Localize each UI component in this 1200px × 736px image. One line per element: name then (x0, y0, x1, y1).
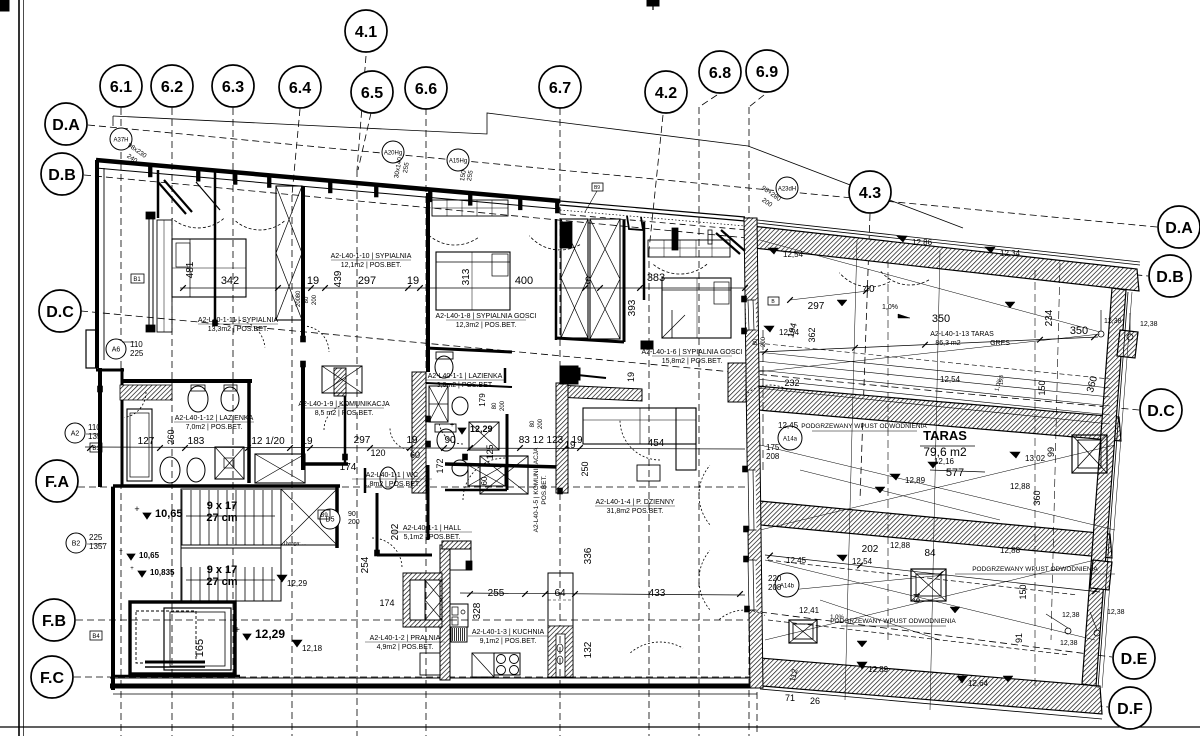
svg-text:132: 132 (583, 641, 594, 658)
svg-text:127: 127 (138, 436, 155, 447)
svg-text:9,1m2 | POS.BET.: 9,1m2 | POS.BET. (480, 638, 537, 645)
svg-text:A2-L40-1-1 | WC: A2-L40-1-1 | WC (366, 472, 418, 479)
svg-text:12,88: 12,88 (890, 541, 911, 550)
svg-text:12,29: 12,29 (470, 424, 493, 434)
svg-text:A2-L40-1-1 | HALL: A2-L40-1-1 | HALL (403, 525, 461, 532)
svg-text:383: 383 (647, 272, 665, 284)
svg-text:202: 202 (390, 523, 401, 540)
svg-text:12 1/20: 12 1/20 (251, 436, 285, 447)
svg-text:362: 362 (807, 327, 817, 342)
svg-text:99: 99 (1046, 447, 1056, 457)
svg-text:64: 64 (912, 593, 922, 603)
svg-text:12,86: 12,86 (912, 238, 933, 247)
svg-text:10,65: 10,65 (155, 508, 183, 520)
svg-text:400: 400 (515, 275, 533, 287)
svg-text:PODGRZEWANY WPUST ODWODNIENIA: PODGRZEWANY WPUST ODWODNIENIA (801, 423, 927, 430)
svg-text:120: 120 (370, 448, 385, 458)
svg-text:9 x 17: 9 x 17 (207, 564, 238, 576)
svg-text:POS.BET.: POS.BET. (541, 475, 548, 504)
svg-text:A2-L40-1-13 TARAS: A2-L40-1-13 TARAS (930, 331, 994, 338)
svg-text:9: 9 (585, 275, 591, 287)
svg-text:A2-L40-1-6 | SYPIALNIA GOSCI: A2-L40-1-6 | SYPIALNIA GOSCI (641, 349, 742, 356)
svg-text:4.1: 4.1 (355, 24, 377, 41)
svg-text:B9: B9 (320, 513, 328, 519)
svg-text:125: 125 (485, 444, 495, 459)
svg-text:179: 179 (478, 393, 487, 407)
svg-text:19: 19 (307, 275, 319, 287)
svg-text:12,18: 12,18 (302, 644, 323, 653)
svg-text:4.3: 4.3 (859, 185, 881, 202)
svg-text:12,64: 12,64 (968, 679, 989, 688)
svg-text:A15Hg: A15Hg (449, 159, 467, 165)
svg-text:110: 110 (88, 423, 101, 432)
svg-text:6.4: 6.4 (289, 80, 311, 97)
svg-text:12,16: 12,16 (934, 457, 955, 466)
svg-text:B1: B1 (92, 446, 100, 452)
svg-text:71: 71 (785, 693, 795, 703)
svg-text:150: 150 (1037, 380, 1047, 395)
svg-text:12,89: 12,89 (868, 665, 889, 674)
svg-text:D.C: D.C (1147, 403, 1175, 420)
svg-text:8,5 m2 | POS.BET.: 8,5 m2 | POS.BET. (315, 410, 374, 417)
svg-text:12,34: 12,34 (1000, 249, 1021, 258)
svg-text:+: + (450, 422, 454, 429)
svg-text:80: 80 (492, 402, 498, 409)
svg-text:+: + (130, 566, 134, 572)
svg-text:PODGRZEWANY WPUST ODWODNIENIA: PODGRZEWANY WPUST ODWODNIENIA (972, 566, 1098, 573)
svg-text:B1: B1 (133, 277, 141, 283)
svg-text:12,88: 12,88 (1010, 482, 1031, 491)
svg-text:350: 350 (1070, 325, 1088, 337)
svg-text:A2-L40-1-4 | P. DZIENNY: A2-L40-1-4 | P. DZIENNY (595, 499, 674, 506)
svg-text:Uwaga: ...: Uwaga: ... (284, 541, 307, 547)
svg-text:A2-L40-1-1 | LAZIENKA: A2-L40-1-1 | LAZIENKA (428, 373, 503, 380)
svg-text:7,0m2 | POS.BET.: 7,0m2 | POS.BET. (186, 424, 243, 431)
svg-text:A14b: A14b (780, 584, 795, 590)
svg-text:202: 202 (862, 544, 879, 555)
svg-text:433: 433 (649, 588, 666, 599)
svg-text:A2-L40-1-11 | SYPIALNIA: A2-L40-1-11 | SYPIALNIA (198, 317, 279, 324)
svg-text:12,45: 12,45 (778, 421, 799, 430)
svg-text:200: 200 (761, 336, 767, 347)
svg-text:110: 110 (130, 340, 143, 349)
svg-text:60: 60 (480, 476, 489, 485)
svg-text:5,1m2 | POS.BET.: 5,1m2 | POS.BET. (404, 534, 461, 541)
svg-text:A2: A2 (71, 431, 80, 438)
svg-text:TARAS: TARAS (923, 428, 967, 443)
svg-text:27 cm: 27 cm (206, 512, 237, 524)
svg-text:D.A: D.A (52, 117, 80, 134)
svg-text:+: + (234, 625, 240, 636)
svg-text:6.5: 6.5 (361, 85, 383, 102)
svg-text:336: 336 (583, 547, 594, 564)
svg-text:297: 297 (354, 435, 371, 446)
svg-text:90: 90 (444, 435, 456, 446)
svg-text:200: 200 (312, 294, 318, 305)
svg-text:454: 454 (648, 438, 665, 449)
svg-text:B9: B9 (594, 185, 600, 191)
svg-text:15,8m2 | POS.BET.: 15,8m2 | POS.BET. (662, 358, 723, 365)
svg-text:80: 80 (296, 290, 302, 297)
svg-text:313: 313 (461, 268, 472, 285)
svg-text:12,54: 12,54 (783, 250, 804, 259)
svg-text:9 x 17: 9 x 17 (207, 500, 238, 512)
svg-text:360: 360 (1032, 490, 1042, 505)
svg-text:183: 183 (188, 436, 205, 447)
svg-text:150: 150 (1018, 584, 1028, 599)
svg-text:83 12 123: 83 12 123 (519, 435, 564, 446)
svg-text:393: 393 (627, 299, 638, 316)
svg-text:4.2: 4.2 (655, 85, 677, 102)
svg-text:1,0%: 1,0% (830, 615, 844, 621)
svg-text:297: 297 (808, 301, 825, 312)
svg-text:+: + (134, 504, 139, 514)
svg-text:F.C: F.C (40, 670, 64, 687)
svg-text:12,29: 12,29 (287, 579, 308, 588)
svg-text:6.3: 6.3 (222, 79, 244, 96)
svg-text:12,41: 12,41 (799, 606, 820, 615)
svg-text:A2-L40-1-10 | SYPIALNIA: A2-L40-1-10 | SYPIALNIA (331, 253, 412, 260)
svg-text:200: 200 (348, 519, 360, 526)
svg-text:B2: B2 (72, 541, 81, 548)
svg-text:1,0%: 1,0% (882, 304, 898, 311)
svg-text:208: 208 (766, 452, 780, 461)
svg-text:B4: B4 (92, 634, 100, 640)
svg-text:6.7: 6.7 (549, 80, 571, 97)
svg-text:A14a: A14a (783, 437, 798, 443)
svg-text:A2-L40-1-5 | KOMUNIKACJA: A2-L40-1-5 | KOMUNIKACJA (533, 447, 540, 532)
svg-text:F.B: F.B (42, 613, 66, 630)
svg-text:19: 19 (564, 440, 576, 451)
svg-text:90: 90 (348, 511, 356, 518)
svg-text:6.8: 6.8 (709, 65, 731, 82)
svg-text:12,38: 12,38 (1104, 318, 1122, 325)
svg-text:200: 200 (500, 400, 506, 411)
svg-text:80: 80 (753, 338, 759, 345)
svg-text:12,29: 12,29 (255, 627, 285, 641)
svg-text:175: 175 (766, 443, 780, 452)
svg-text:12,38: 12,38 (1140, 321, 1158, 328)
svg-text:D.C: D.C (46, 304, 74, 321)
svg-text:174: 174 (340, 462, 357, 473)
svg-text:6.2: 6.2 (161, 79, 183, 96)
svg-text:6.6: 6.6 (415, 81, 437, 98)
svg-text:232: 232 (784, 378, 799, 388)
svg-text:31,8m2 POS.BET.: 31,8m2 POS.BET. (607, 508, 664, 515)
svg-text:19: 19 (406, 435, 418, 446)
svg-text:60: 60 (410, 450, 420, 460)
svg-text:439: 439 (333, 270, 344, 287)
svg-text:12,1m2 | POS.BET.: 12,1m2 | POS.BET. (341, 262, 402, 269)
svg-text:254: 254 (360, 556, 371, 573)
svg-text:19: 19 (407, 275, 419, 287)
svg-text:91: 91 (1014, 633, 1024, 643)
svg-text:165: 165 (194, 639, 206, 657)
svg-text:84: 84 (924, 548, 936, 559)
svg-text:A20Hg: A20Hg (384, 151, 402, 157)
svg-text:200: 200 (296, 296, 302, 307)
svg-text:80: 80 (530, 420, 536, 427)
svg-text:PODGRZEWANY WPUST ODWODNIENIA: PODGRZEWANY WPUST ODWODNIENIA (830, 618, 956, 625)
svg-text:220: 220 (768, 574, 782, 583)
svg-text:26: 26 (810, 696, 820, 706)
svg-text:174: 174 (379, 598, 394, 608)
svg-text:342: 342 (221, 275, 239, 287)
svg-text:12,38: 12,38 (1107, 609, 1125, 616)
svg-text:19: 19 (301, 436, 313, 447)
svg-text:208: 208 (768, 583, 782, 592)
svg-text:10,835: 10,835 (150, 568, 175, 577)
svg-text:D.B: D.B (1156, 269, 1184, 286)
svg-text:F.A: F.A (45, 474, 69, 491)
svg-text:A37H: A37H (113, 138, 128, 144)
svg-text:135: 135 (88, 432, 102, 441)
svg-text:250: 250 (580, 461, 590, 476)
svg-text:225: 225 (130, 349, 144, 358)
svg-text:297: 297 (358, 275, 376, 287)
svg-text:A2-L40-1-9 | KOMUNIKACJA: A2-L40-1-9 | KOMUNIKACJA (298, 401, 390, 408)
svg-text:1357: 1357 (89, 542, 107, 551)
svg-text:A2-L40-1-8 | SYPIALNIA GOSCI: A2-L40-1-8 | SYPIALNIA GOSCI (435, 313, 536, 320)
svg-text:+: + (119, 549, 123, 555)
svg-text:40: 40 (863, 284, 875, 295)
svg-text:481: 481 (185, 261, 196, 278)
svg-text:12,88: 12,88 (1000, 546, 1021, 555)
svg-text:3,8m2 | POS.BET.: 3,8m2 | POS.BET. (437, 382, 494, 389)
svg-text:577: 577 (946, 467, 964, 479)
svg-text:234: 234 (1044, 309, 1055, 326)
svg-text:12,38: 12,38 (1060, 640, 1078, 647)
svg-text:D.E: D.E (1121, 651, 1148, 668)
svg-text:12,38: 12,38 (1062, 612, 1080, 619)
svg-text:A23dH: A23dH (778, 187, 796, 193)
svg-text:A2-L40-1-2 | PRALNIA: A2-L40-1-2 | PRALNIA (370, 635, 441, 642)
svg-text:D.B: D.B (48, 167, 76, 184)
svg-text:6.1: 6.1 (110, 79, 132, 96)
svg-text:12,89: 12,89 (905, 476, 926, 485)
svg-text:A2-L40-1-12 | LAZIENKA: A2-L40-1-12 | LAZIENKA (175, 415, 254, 422)
svg-text:A6: A6 (112, 347, 121, 354)
svg-text:80: 80 (304, 296, 310, 303)
svg-text:172: 172 (435, 458, 445, 473)
svg-text:27 cm: 27 cm (206, 576, 237, 588)
svg-text:10,65: 10,65 (139, 551, 160, 560)
svg-text:200: 200 (538, 418, 544, 429)
svg-text:1,8m2 | POS.BET.: 1,8m2 | POS.BET. (364, 481, 421, 488)
svg-text:A2-L40-1-3 | KUCHNIA: A2-L40-1-3 | KUCHNIA (472, 629, 545, 636)
svg-text:D.F: D.F (1117, 701, 1143, 718)
svg-text:328: 328 (472, 602, 483, 619)
svg-text:19: 19 (626, 372, 636, 382)
svg-text:13,3m2 | POS.BET.: 13,3m2 | POS.BET. (208, 326, 269, 333)
svg-text:D.A: D.A (1165, 220, 1193, 237)
svg-text:4,9m2 | POS.BET.: 4,9m2 | POS.BET. (377, 644, 434, 651)
svg-text:225: 225 (89, 533, 103, 542)
svg-text:350: 350 (932, 313, 950, 325)
svg-text:12,3m2 | POS.BET.: 12,3m2 | POS.BET. (456, 322, 517, 329)
svg-text:260: 260 (166, 429, 176, 444)
svg-text:12,54: 12,54 (940, 375, 961, 384)
svg-text:6.9: 6.9 (756, 64, 778, 81)
